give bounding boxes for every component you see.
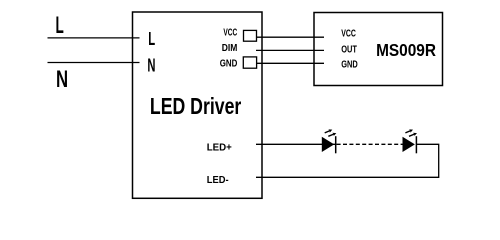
svg-text:L: L [148, 28, 155, 49]
svg-text:LED-: LED- [207, 174, 229, 186]
svg-text:GND: GND [341, 59, 358, 70]
svg-text:LED Driver: LED Driver [150, 93, 241, 119]
svg-text:OUT: OUT [341, 44, 357, 55]
svg-text:N: N [56, 66, 68, 93]
svg-text:GND: GND [220, 59, 238, 70]
svg-text:N: N [147, 54, 155, 75]
svg-text:VCC: VCC [341, 28, 356, 39]
svg-text:MS009R: MS009R [376, 40, 436, 60]
svg-text:L: L [56, 12, 64, 39]
svg-text:VCC: VCC [223, 28, 237, 39]
svg-text:LED+: LED+ [207, 142, 232, 154]
svg-text:DIM: DIM [222, 43, 238, 54]
